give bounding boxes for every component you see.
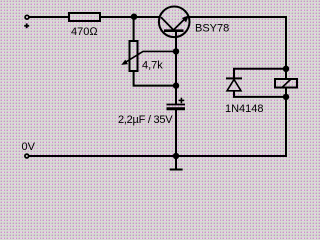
wire: node A to Q1 collector <box>134 16 160 18</box>
wire: bottom rail 0V terminal to node D <box>29 155 176 157</box>
node: P1 bottom / base junction <box>173 82 179 88</box>
wire: C1 bottom to node D <box>175 109 177 157</box>
wire: P1 bottom to base node <box>134 71 176 86</box>
svg-text:2,2µF / 35V: 2,2µF / 35V <box>118 114 173 126</box>
wire: R1 to node A <box>100 16 134 18</box>
node C (relay / diode bottom junction) <box>283 94 289 100</box>
wire: node A down to P1 top <box>133 16 135 41</box>
wire: bottom rail node D to relay branch <box>176 155 287 157</box>
node A (junction R1 / P1 / Q1 collector) <box>131 14 137 20</box>
wire: wiper node to P1 bottom node <box>175 51 177 85</box>
resistor R1 <box>69 13 100 21</box>
label + (positive terminal) <box>24 23 29 28</box>
wire: +V terminal to R1 <box>29 16 69 18</box>
wire: base node to C1 top <box>175 86 177 105</box>
wire: Q1 emitter to top-right corner <box>188 16 287 18</box>
svg-text:470Ω: 470Ω <box>71 26 98 38</box>
wire: D1 anode to node C <box>234 91 286 97</box>
wire: Q1 base down to wiper node <box>175 31 177 51</box>
svg-text:0V: 0V <box>22 141 36 153</box>
terminal +V <box>25 15 29 19</box>
potentiometer P1 body <box>130 41 138 71</box>
node B (relay / diode top junction) <box>283 66 289 72</box>
diode D1 <box>226 78 242 90</box>
relay K1 coil <box>275 79 297 88</box>
label + (C1 polarity) <box>179 98 185 104</box>
wire: node C down to bottom rail <box>285 97 287 157</box>
svg-text:BSY78: BSY78 <box>195 23 229 35</box>
transistor Q1 <box>159 6 190 37</box>
svg-text:1N4148: 1N4148 <box>225 103 264 115</box>
ground <box>170 156 183 170</box>
capacitor C1 (electrolytic) <box>167 105 186 109</box>
terminal 0V <box>25 154 29 158</box>
potentiometer P1 wiper arrow <box>121 51 176 65</box>
node: wiper / base wire junction <box>173 48 179 54</box>
wire: relay K1 to node C <box>285 88 287 99</box>
svg-text:4,7k: 4,7k <box>142 60 163 72</box>
wire: right branch down to node B <box>285 16 287 79</box>
wire: node B to D1 cathode <box>234 69 286 79</box>
node D (capacitor / ground junction) <box>173 153 179 159</box>
